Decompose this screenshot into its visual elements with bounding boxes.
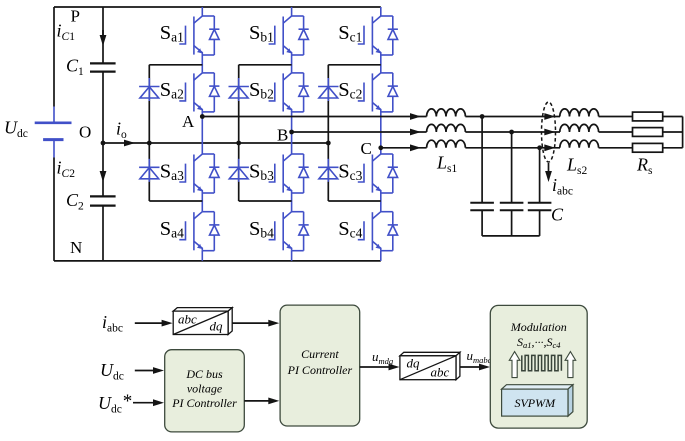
- wire below capacitor B: [511, 210, 513, 236]
- svg-text:DC bus: DC bus: [185, 367, 223, 381]
- transform block abc/dq: [173, 308, 232, 335]
- svg-text:Modulation: Modulation: [510, 320, 567, 334]
- clamp link lower (phase b): [239, 200, 292, 202]
- wire: neutral O line: [103, 142, 328, 144]
- transistor Sc3: [358, 154, 398, 193]
- phase a leg wire (node to N): [201, 117, 203, 261]
- junction filter tap C: [537, 145, 542, 150]
- clamp rail (phase c): [327, 65, 329, 201]
- svg-text:abc: abc: [431, 364, 450, 379]
- block SVPWM: [502, 385, 573, 416]
- resistor Rs phase B: [633, 128, 663, 137]
- clamp link upper (phase c): [328, 64, 381, 66]
- filter capacitor A: [470, 203, 494, 211]
- transistor Sa4: [179, 212, 219, 251]
- wire: left rail lower: [53, 158, 55, 261]
- svg-text:dq: dq: [210, 318, 224, 333]
- resistor Rs phase A: [633, 112, 663, 121]
- node A: [200, 114, 205, 119]
- wire phase C between Ls1 and Ls2: [465, 147, 560, 149]
- wire phase C to resistor: [599, 147, 633, 149]
- wire Udc to DC bus controller: [135, 370, 155, 372]
- block Modulation: [490, 305, 587, 428]
- inductor Ls1 phase A: [427, 109, 466, 117]
- svg-text:SVPWM: SVPWM: [514, 396, 556, 410]
- svg-text:C: C: [551, 205, 564, 225]
- wire: left rail upper: [53, 7, 55, 107]
- wire phase A output: [202, 116, 426, 118]
- transistor Sc1: [358, 16, 398, 55]
- wire phase B resistor to bus: [663, 131, 683, 133]
- wire phase C resistor to bus: [663, 147, 683, 149]
- wire: top DC rail P: [54, 6, 381, 8]
- svg-text:A: A: [182, 112, 195, 131]
- filter capacitor B: [500, 203, 524, 211]
- svg-text:O: O: [79, 122, 91, 141]
- phase c leg wire (P to Sc3 top): [380, 7, 382, 148]
- svg-text:C: C: [361, 139, 372, 158]
- clamp diode Db3: [229, 159, 249, 182]
- wire phase C output: [381, 147, 427, 149]
- junction clamp rail c / O line: [326, 141, 331, 146]
- clamp link lower (phase c): [328, 200, 381, 202]
- arrow on phase A before Ls2: [544, 113, 555, 120]
- inductor Ls1 phase B: [427, 124, 466, 132]
- transistor Sb4: [269, 212, 309, 251]
- clamp rail (phase b): [238, 65, 240, 201]
- block arrow up right: [565, 352, 576, 378]
- block arrow up left: [509, 352, 520, 378]
- junction clamp rail b / O line: [236, 141, 241, 146]
- wire filter tap A down: [481, 117, 483, 203]
- junction filter tap B: [509, 130, 514, 135]
- transistor Sc2: [358, 73, 398, 112]
- wire Udc* to DC bus controller: [133, 402, 155, 404]
- arrow on phase C before Ls2: [544, 144, 555, 151]
- transistor Sa3: [179, 154, 219, 193]
- arrow on phase A before Ls1: [410, 113, 421, 120]
- wire current controller to dq/abc: [360, 366, 390, 368]
- filter capacitor C: [528, 203, 552, 211]
- clamp diode Db2: [229, 78, 249, 101]
- wire phase A to resistor: [599, 116, 633, 118]
- wire phase B to resistor: [599, 131, 633, 133]
- voltage source Udc: [35, 107, 72, 158]
- wire iabc to abc/dq: [135, 322, 163, 324]
- wire capacitor common bus: [482, 235, 539, 237]
- block Current PI Controller: [280, 305, 360, 426]
- node B: [289, 130, 294, 135]
- inductor Ls2 phase B: [560, 124, 599, 132]
- transistor Sa1: [179, 16, 219, 55]
- wire: bottom DC rail N: [54, 260, 381, 262]
- current arrow iabc: [548, 163, 550, 172]
- svg-text:P: P: [71, 6, 80, 25]
- wire DC bus controller to current controller: [244, 400, 270, 402]
- measurement ellipse: [542, 102, 556, 162]
- transistor Sb2: [269, 73, 309, 112]
- phase b leg wire (node to N): [291, 132, 293, 261]
- wire phase B between Ls1 and Ls2: [465, 131, 560, 133]
- clamp link upper (phase b): [239, 64, 292, 66]
- resistor Rs phase C: [633, 143, 663, 152]
- inductor Ls2 phase C: [560, 140, 599, 148]
- transistor Sb3: [269, 154, 309, 193]
- svg-text:PI Controller: PI Controller: [287, 363, 353, 377]
- arrow on phase B before Ls1: [410, 129, 421, 136]
- current arrow io: [124, 140, 135, 147]
- wire filter tap C down: [539, 148, 541, 203]
- clamp diode Dc2: [318, 78, 338, 101]
- clamp diode Dc3: [318, 159, 338, 182]
- clamp rail (phase a): [148, 65, 150, 201]
- junction clamp rail a / O line: [147, 141, 152, 146]
- junction filter tap A: [480, 114, 485, 119]
- wire filter tap B down: [511, 132, 513, 203]
- clamp diode Da2: [139, 78, 159, 101]
- wire below capacitor C: [539, 210, 541, 236]
- phase b leg wire (P to Sb3 top): [291, 7, 293, 132]
- wire: center column middle: [102, 72, 104, 197]
- capacitor C2: [90, 196, 116, 205]
- svg-text:abc: abc: [178, 312, 197, 327]
- PWM waveform: [522, 355, 562, 370]
- transistor Sc4: [358, 212, 398, 251]
- transistor Sa2: [179, 73, 219, 112]
- clamp diode Da3: [139, 159, 159, 182]
- wire load common bus: [682, 117, 684, 148]
- svg-text:PI Controller: PI Controller: [171, 396, 237, 410]
- current arrow iC2: [100, 171, 107, 182]
- capacitor C1: [90, 63, 116, 71]
- inductor Ls1 phase C: [427, 140, 466, 148]
- clamp link lower (phase a): [149, 200, 202, 202]
- junction O: [101, 141, 106, 146]
- wire dq/abc to modulation: [460, 366, 481, 368]
- svg-text:B: B: [277, 126, 288, 145]
- svg-text:Current: Current: [301, 347, 339, 361]
- svg-text:voltage: voltage: [187, 382, 223, 396]
- transform block dq/abc: [400, 352, 460, 379]
- wire abc/dq to current controller: [232, 322, 270, 324]
- current arrow iC1: [102, 30, 104, 36]
- wire phase A resistor to bus: [663, 116, 683, 118]
- phase a leg wire (P to Sa3 top): [201, 7, 203, 117]
- phase c leg wire (node to N): [380, 148, 382, 261]
- arrow on phase C before Ls1: [410, 144, 421, 151]
- block DC bus voltage PI Controller: [165, 350, 245, 432]
- wire phase A between Ls1 and Ls2: [465, 116, 560, 118]
- svg-text:N: N: [70, 238, 82, 257]
- svg-text:dq: dq: [407, 355, 421, 370]
- clamp link upper (phase a): [149, 64, 202, 66]
- wire: center column top: [102, 7, 104, 63]
- node C: [378, 145, 383, 150]
- arrow on phase B before Ls2: [544, 129, 555, 136]
- inductor Ls2 phase A: [560, 109, 599, 117]
- wire phase B output: [292, 131, 427, 133]
- wire: center column bottom: [102, 206, 104, 261]
- wire below capacitor A: [481, 210, 483, 236]
- transistor Sb1: [269, 16, 309, 55]
